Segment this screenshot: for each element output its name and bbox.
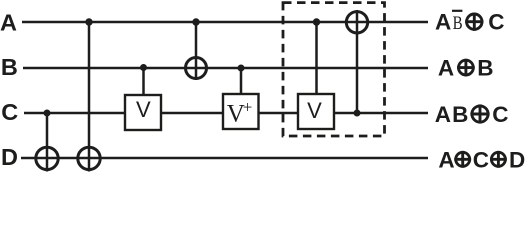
svg-text:A: A bbox=[0, 9, 17, 35]
svg-text:B: B bbox=[452, 102, 468, 127]
svg-text:A: A bbox=[435, 9, 451, 34]
svg-text:A: A bbox=[435, 102, 451, 127]
svg-text:+: + bbox=[243, 97, 253, 116]
svg-text:D: D bbox=[509, 147, 525, 172]
svg-text:C: C bbox=[492, 102, 508, 127]
svg-text:C: C bbox=[488, 9, 504, 34]
svg-text:A: A bbox=[438, 147, 454, 172]
svg-text:B: B bbox=[1, 54, 18, 80]
svg-text:B: B bbox=[477, 55, 493, 80]
svg-text:C: C bbox=[1, 99, 18, 125]
svg-text:D: D bbox=[1, 144, 18, 170]
svg-text:A: A bbox=[438, 55, 454, 80]
svg-text:C: C bbox=[473, 147, 489, 172]
svg-text:V: V bbox=[307, 98, 322, 123]
svg-text:B: B bbox=[453, 14, 463, 34]
svg-text:V: V bbox=[136, 97, 151, 122]
